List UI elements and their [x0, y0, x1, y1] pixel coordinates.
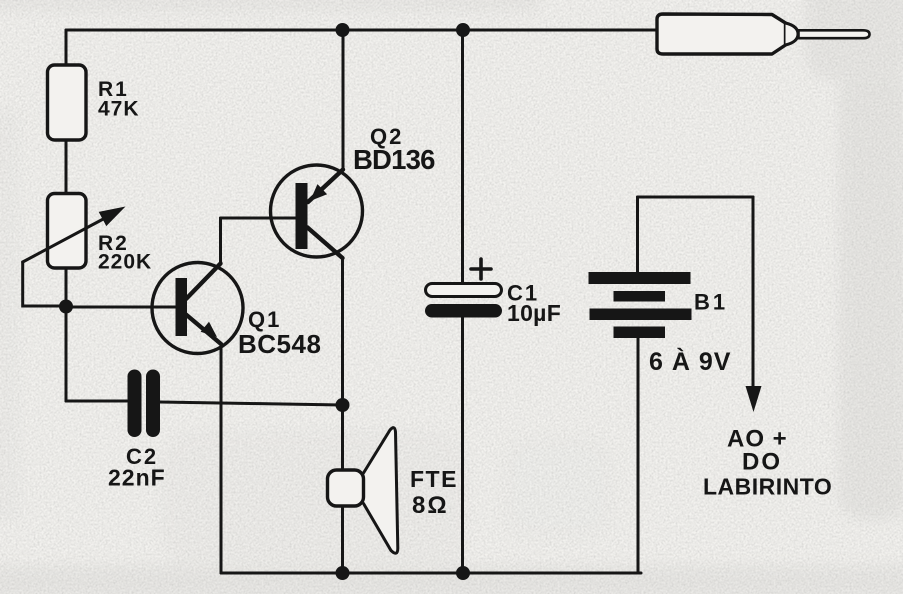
wire to C2 left plate: [66, 400, 127, 403]
wire Q2 emitter to top rail: [342, 30, 345, 170]
wire R1 to R2: [65, 140, 68, 194]
svg-text:DO: DO: [742, 449, 782, 476]
wire Q2 collector down: [341, 258, 344, 405]
wire Q1 emitter down: [220, 344, 223, 573]
svg-text:6 À 9V: 6 À 9V: [649, 347, 731, 376]
wire top rail: [66, 29, 658, 32]
transistor Q2: [271, 165, 363, 258]
wire bottom rail: [221, 572, 641, 575]
rheostat wiper arrow of R2: [23, 207, 126, 307]
wire left rail top (to R1): [65, 30, 68, 66]
wire C1 top: [461, 30, 464, 284]
wire battery to output: [638, 196, 754, 199]
svg-text:BD136: BD136: [353, 144, 435, 175]
capacitor C2: [128, 370, 161, 438]
node junction dot Q2 collector / C2: [336, 398, 350, 412]
wire to Q2 base: [221, 217, 297, 220]
svg-text:8Ω: 8Ω: [412, 492, 449, 519]
resistor R1: [48, 65, 87, 140]
svg-text:FTE: FTE: [410, 466, 458, 492]
wire left rail down: [65, 306, 68, 401]
wire battery minus down: [637, 338, 640, 573]
wire C1 bottom: [461, 317, 464, 573]
svg-text:10µF: 10µF: [507, 300, 561, 326]
svg-text:BC548: BC548: [238, 329, 321, 359]
svg-text:47K: 47K: [98, 98, 140, 121]
wire R2 bottom to node: [65, 268, 68, 306]
capacitor C1: [425, 259, 502, 318]
wire node to Q1 base: [66, 306, 176, 309]
wire node to speaker: [341, 405, 344, 470]
wire speaker to bottom rail: [341, 506, 344, 573]
wire battery plus up: [636, 197, 639, 272]
node junction dot top rail / C1: [456, 23, 470, 37]
node junction dot (R2 / wiper / Q1 base): [59, 300, 73, 314]
wire output arrow down: [752, 197, 755, 388]
wire Q1 collector up: [219, 218, 222, 264]
wire C2 right plate to node: [160, 402, 343, 405]
node junction dot bottom rail / speaker: [336, 566, 350, 580]
svg-text:22nF: 22nF: [108, 465, 166, 491]
svg-text:B1: B1: [694, 290, 728, 315]
svg-text:220K: 220K: [98, 251, 152, 274]
probe plug (test tip): [657, 14, 870, 54]
battery B1: [589, 272, 692, 338]
node junction dot bottom rail / C1: [456, 566, 470, 580]
speaker FTE: [328, 428, 398, 554]
arrowhead output to labyrinth: [746, 386, 762, 412]
resistor R2 (rheostat): [48, 194, 87, 269]
svg-text:LABIRINTO: LABIRINTO: [703, 474, 832, 500]
node junction dot top rail / Q2 emitter: [336, 23, 350, 37]
transistor Q1: [152, 263, 243, 354]
